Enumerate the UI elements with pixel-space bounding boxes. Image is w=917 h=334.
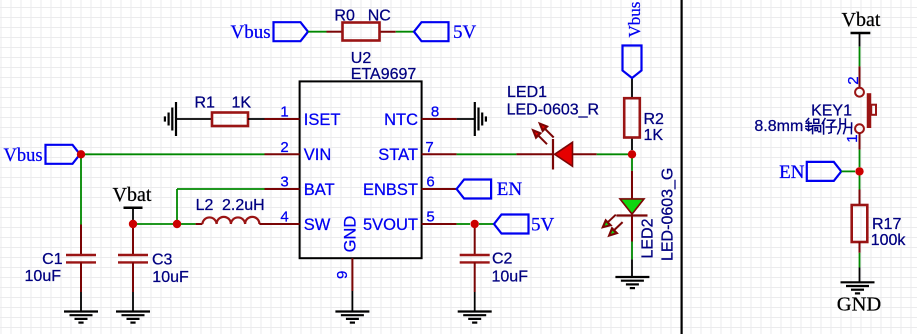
net flag Vbus (vertical) <box>623 2 645 78</box>
capacitor C2 <box>460 228 528 292</box>
svg-text:5V: 5V <box>453 22 477 43</box>
wire <box>631 242 633 260</box>
wire <box>457 153 517 155</box>
svg-text:GND: GND <box>342 216 360 253</box>
svg-text:LED-0603_R: LED-0603_R <box>507 102 599 119</box>
ground (C1) <box>64 312 98 323</box>
svg-text:GND: GND <box>837 294 881 316</box>
svg-text:5V: 5V <box>531 215 555 236</box>
svg-text:1K: 1K <box>232 95 252 112</box>
wire <box>631 154 633 171</box>
wire <box>859 150 861 168</box>
svg-text:7: 7 <box>425 139 433 156</box>
svg-text:8: 8 <box>431 104 439 121</box>
wire <box>81 153 265 155</box>
net flag EN (U2) <box>457 179 523 200</box>
svg-text:Vbat: Vbat <box>842 9 881 31</box>
wire <box>479 223 494 225</box>
svg-text:Vbus: Vbus <box>231 22 271 43</box>
svg-text:R1: R1 <box>195 95 216 112</box>
svg-text:6: 6 <box>426 174 434 191</box>
wire <box>80 154 82 224</box>
svg-text:SW: SW <box>304 216 331 234</box>
pin 1 ISET <box>265 104 341 129</box>
svg-text:1K: 1K <box>644 127 664 144</box>
wire <box>177 188 265 190</box>
pin 8 NTC <box>384 104 457 129</box>
ground (R1 left) <box>165 102 176 136</box>
wire <box>457 118 475 120</box>
wire <box>631 259 633 276</box>
svg-text:3: 3 <box>280 174 288 191</box>
junction <box>129 220 137 228</box>
svg-text:NC: NC <box>368 7 391 24</box>
resistor R2 <box>624 78 664 150</box>
pin 9 GND <box>334 216 360 291</box>
wire <box>841 170 855 172</box>
svg-text:2: 2 <box>845 76 862 84</box>
pin 6 ENBST <box>363 174 457 199</box>
key KEY1 <box>811 66 876 149</box>
wire <box>457 223 470 225</box>
label 8.8mm guozaipian <box>754 118 803 135</box>
pin 7 STAT <box>378 139 456 164</box>
wire <box>176 118 212 120</box>
junction <box>628 150 636 158</box>
svg-text:10uF: 10uF <box>152 269 189 286</box>
svg-text:Vbus: Vbus <box>4 146 43 166</box>
pin 5 5VOUT <box>363 209 457 234</box>
svg-text:100k: 100k <box>871 232 907 249</box>
net flag Vbus (left) <box>4 145 81 166</box>
ground (R17) <box>841 282 875 293</box>
capacitor C1 <box>25 225 96 293</box>
wire <box>597 153 632 155</box>
ground (U2 pin 9) <box>335 312 369 323</box>
net flag Vbus (top) <box>231 22 309 43</box>
capacitor C3 <box>118 228 189 292</box>
wire <box>859 253 861 268</box>
svg-text:L2: L2 <box>196 197 214 214</box>
pin 2 VIN <box>265 139 332 164</box>
junction <box>173 220 181 228</box>
power flag Vbat (left) <box>113 184 152 224</box>
net flag EN (right) <box>779 162 841 183</box>
wire <box>859 268 861 283</box>
svg-text:C3: C3 <box>152 251 173 268</box>
svg-text:1: 1 <box>280 104 288 121</box>
wire <box>859 175 861 189</box>
inductor L2 <box>196 197 266 224</box>
wire <box>176 189 178 224</box>
ground (C3) <box>116 312 150 323</box>
pin 3 BAT <box>265 174 335 199</box>
wire <box>474 292 476 311</box>
svg-text:BAT: BAT <box>304 181 335 199</box>
svg-text:5VOUT: 5VOUT <box>363 216 418 234</box>
svg-text:U2: U2 <box>351 50 372 67</box>
LED1 <box>507 84 599 170</box>
svg-text:Vbat: Vbat <box>113 184 152 206</box>
resistor R0 <box>327 7 396 40</box>
LED2 <box>603 168 677 261</box>
svg-text:C1: C1 <box>42 251 63 268</box>
svg-text:ISET: ISET <box>304 111 341 129</box>
wire <box>396 31 414 33</box>
net flag 5V (top) <box>414 22 477 43</box>
svg-text:4: 4 <box>280 209 288 226</box>
svg-text:2: 2 <box>280 139 288 156</box>
ground (NTC) <box>475 102 486 136</box>
svg-text:10uF: 10uF <box>492 269 529 286</box>
wire <box>80 292 82 311</box>
svg-text:C2: C2 <box>492 251 513 268</box>
svg-text:EN: EN <box>779 162 805 183</box>
svg-text:R17: R17 <box>872 216 901 233</box>
svg-text:KEY1: KEY1 <box>811 103 852 120</box>
wire <box>351 291 353 311</box>
svg-text:ENBST: ENBST <box>363 181 418 199</box>
svg-text:LED1: LED1 <box>507 84 547 101</box>
label CJK <box>806 119 852 135</box>
svg-text:NTC: NTC <box>384 111 418 129</box>
IC U2 body <box>300 81 422 258</box>
ground (LED2) <box>615 277 649 288</box>
power flag Vbat (right) <box>842 9 881 47</box>
svg-text:5: 5 <box>426 209 434 226</box>
svg-text:STAT: STAT <box>378 146 418 164</box>
wire <box>132 292 134 311</box>
junction <box>77 150 85 158</box>
ground (C2) <box>458 312 492 323</box>
wire <box>181 223 196 225</box>
svg-text:R2: R2 <box>644 111 665 128</box>
resistor R1 <box>195 95 265 126</box>
svg-text:LED2: LED2 <box>640 218 657 258</box>
svg-text:Vbus: Vbus <box>625 2 644 38</box>
svg-text:9: 9 <box>334 271 351 279</box>
divider line <box>680 0 682 334</box>
svg-text:R0: R0 <box>334 7 355 24</box>
junction <box>471 220 479 228</box>
pin 4 SW <box>265 209 331 234</box>
svg-text:1: 1 <box>844 134 861 142</box>
junction <box>855 167 863 175</box>
wire <box>308 31 327 33</box>
label GND <box>837 294 881 316</box>
svg-text:VIN: VIN <box>304 146 332 164</box>
svg-text:8.8mm: 8.8mm <box>754 118 803 135</box>
resistor R17 <box>852 190 907 253</box>
svg-text:LED-0603_G: LED-0603_G <box>659 168 676 261</box>
svg-text:EN: EN <box>497 179 523 200</box>
wire <box>133 223 177 225</box>
net flag 5V (right) <box>494 215 555 236</box>
IC U2 designator labels <box>351 50 417 83</box>
wire <box>859 47 861 67</box>
svg-text:10uF: 10uF <box>25 268 62 285</box>
svg-text:2.2uH: 2.2uH <box>222 197 265 214</box>
